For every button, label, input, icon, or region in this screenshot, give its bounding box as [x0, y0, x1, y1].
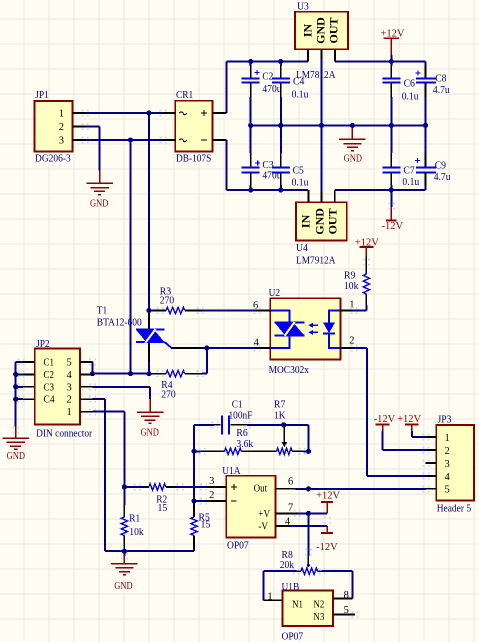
svg-text:3: 3	[59, 136, 64, 147]
pin JP2 1 (right)	[80, 411, 92, 413]
svg-text:JP3: JP3	[438, 413, 452, 425]
symbol - inside CR1	[201, 139, 207, 141]
wire +12V net down to R8 wiper	[307, 513, 309, 556]
svg-text:1: 1	[59, 109, 64, 120]
svg-text:4.7u: 4.7u	[433, 84, 450, 96]
wire JP2 pin1 down to R1/R2 node	[93, 411, 125, 413]
svg-text:MOC302x: MOC302x	[269, 364, 310, 376]
wire R2 to U1A pin3	[178, 486, 207, 488]
capacitor C6 0.1u	[390, 62, 392, 67]
svg-text:0.1u: 0.1u	[402, 176, 419, 188]
svg-text:10k: 10k	[129, 526, 144, 538]
junction C4 top on rail	[278, 59, 283, 64]
pin U1A.7	[276, 512, 298, 514]
pin U1B.5	[333, 614, 355, 616]
svg-text:1: 1	[67, 407, 72, 418]
svg-text:3: 3	[209, 476, 214, 487]
svg-text:DIN connector: DIN connector	[36, 428, 92, 440]
svg-text:C2: C2	[44, 370, 54, 381]
pin JP3.1	[426, 436, 436, 438]
wire junction to U2 pin4	[207, 347, 256, 349]
pin U3 OUT	[334, 49, 336, 61]
pin U1A.6	[276, 488, 296, 490]
junction C6 bottom / C7 top	[389, 123, 394, 128]
svg-text:1K: 1K	[274, 410, 286, 422]
ground symbol GND (mid rail)	[351, 125, 353, 128]
internal LED of U2	[329, 311, 341, 323]
svg-text:C8: C8	[435, 73, 447, 85]
wire junction down to R4	[206, 348, 208, 374]
svg-text:C2: C2	[262, 70, 273, 82]
resistor R9 10k vertical	[359, 246, 373, 248]
wire JP2 pin5 drop to row net	[92, 362, 94, 374]
svg-text:OUT: OUT	[325, 208, 339, 234]
connector JP1	[35, 101, 73, 152]
svg-text:-12V: -12V	[316, 542, 338, 553]
ground symbol GND (JP2 pin3)	[149, 399, 151, 412]
svg-text:470u: 470u	[262, 83, 282, 95]
junction JP2.4 pin / pin5 drop	[90, 371, 95, 376]
svg-text:4: 4	[254, 338, 260, 349]
capacitor C1 100nF	[194, 424, 214, 426]
svg-text:N3: N3	[313, 612, 324, 623]
polarity + of C2	[255, 72, 260, 74]
pin CR1 ac bottom	[163, 139, 175, 141]
junction U3/U4 GND pin on rail	[319, 123, 324, 128]
capacitor C9 4.7u	[425, 125, 427, 153]
svg-text:LM7812A: LM7812A	[296, 69, 336, 81]
resistor R4 270	[166, 371, 185, 377]
pin CR1 + output	[213, 112, 227, 114]
svg-text:OUT: OUT	[326, 17, 340, 43]
wire U2 pin1 to R9	[353, 310, 367, 312]
wire U3 OUT rail to +12V and C6 C8	[335, 61, 426, 63]
wire bottom rail right (U4 OUT to C7 C9)	[335, 189, 426, 191]
pin U3 GND	[321, 49, 323, 59]
power symbol +12V (U1A pin7)	[326, 502, 328, 513]
pin U1A.2	[206, 500, 226, 502]
pin U2.6	[256, 310, 271, 312]
wire JP1.2 to GND	[85, 126, 100, 128]
pin CR1 ac top	[163, 112, 175, 114]
op-amp U1A OP07	[226, 476, 275, 538]
svg-text:270: 270	[161, 389, 176, 401]
resistor R6 3.6k	[194, 450, 201, 452]
junction R7 to output vertical	[306, 449, 311, 454]
capacitor C4 0.1u	[280, 62, 282, 67]
wire pin7 to +12V	[297, 512, 327, 514]
svg-text:DG206-3: DG206-3	[35, 152, 71, 164]
capacitor C3 470u	[250, 125, 252, 153]
svg-text:2: 2	[67, 395, 72, 406]
svg-text:6: 6	[253, 300, 258, 311]
junction C3 bottom on rail	[248, 187, 253, 192]
svg-text:8: 8	[344, 590, 349, 601]
junction net AC2 end	[128, 371, 133, 376]
wire row net: JP2 to R4	[93, 373, 150, 375]
svg-text:3: 3	[445, 459, 450, 470]
svg-text:C1: C1	[44, 357, 54, 368]
junction gate / U2 pin4 / R4	[204, 345, 209, 350]
pin U1A.4	[276, 525, 291, 527]
svg-text:5: 5	[445, 485, 450, 496]
pin U2.2	[341, 347, 353, 349]
pin U4 OUT	[334, 190, 336, 202]
junction JP2 C3 on common	[13, 384, 18, 389]
junction C7 bottom / -12V	[389, 187, 394, 192]
svg-text:C7: C7	[403, 164, 415, 176]
wire JP1.3 to CR1 AC- node	[85, 139, 163, 141]
pin JP2 4 (right)	[80, 373, 92, 375]
svg-text:0.1u: 0.1u	[292, 88, 309, 100]
pin U4 GND	[321, 192, 323, 202]
svg-text:C3: C3	[44, 382, 54, 393]
svg-text:-12V: -12V	[374, 414, 396, 425]
svg-text:+12V: +12V	[355, 237, 379, 248]
svg-text:-V: -V	[258, 522, 268, 533]
power symbol -12V (below C7)	[390, 190, 392, 207]
resistor R8 20k (offset pot)	[264, 570, 297, 572]
symbol + input (U1A)	[231, 486, 237, 488]
junction R1 bottom / GND rail	[122, 549, 127, 554]
regulator U3 LM7812A	[295, 12, 348, 50]
svg-text:3: 3	[67, 382, 72, 393]
junction R3 tap on net AC1	[146, 308, 151, 313]
resistor R1 10k vertical	[123, 487, 125, 505]
svg-text:Out: Out	[254, 484, 268, 495]
hotspot markers	[12, 110, 429, 618]
svg-text:BTA12-600: BTA12-600	[97, 317, 142, 329]
svg-text:U1B: U1B	[282, 581, 300, 593]
svg-text:N1: N1	[292, 600, 303, 611]
optocoupler U2 MOC302x	[270, 298, 340, 359]
gate lead of T1	[165, 342, 177, 348]
svg-text:7: 7	[288, 502, 293, 513]
svg-text:2: 2	[59, 122, 64, 133]
svg-text:GND: GND	[141, 427, 159, 438]
svg-text:15: 15	[158, 502, 168, 514]
pin JP2 C1 (left)	[23, 361, 35, 363]
power symbol -12V (JP3)	[376, 424, 390, 426]
coupling arrows inside U2	[310, 324, 318, 326]
junction R7 wiper on C1 line	[281, 422, 286, 427]
svg-text:IN: IN	[300, 24, 314, 38]
svg-text:T1: T1	[97, 304, 107, 316]
internal triac of U2	[270, 311, 289, 323]
ground symbol GND (JP2 common)	[15, 427, 17, 438]
svg-text:C5: C5	[293, 164, 305, 176]
svg-text:C9: C9	[435, 159, 447, 171]
junction node pin2 / R5 / node A	[191, 498, 196, 503]
svg-text:5: 5	[344, 605, 349, 616]
pin CR1 - output	[213, 139, 227, 141]
wire pin4 to -12V	[290, 525, 327, 527]
junction R2 R1 JP2.1 node	[122, 484, 127, 489]
junction C2 top on rail	[248, 59, 253, 64]
pin JP2 C4 (left)	[23, 398, 35, 400]
pin JP2 C3 (left)	[23, 386, 35, 388]
svg-text:15: 15	[201, 519, 211, 531]
svg-text:4: 4	[67, 370, 73, 381]
svg-text:-12V: -12V	[382, 221, 404, 232]
polarity + of C9	[415, 159, 420, 161]
junction C4 bottom	[278, 123, 283, 128]
junction C2 bottom	[248, 123, 253, 128]
wire CR1- down to bottom rail	[226, 140, 228, 190]
svg-text:6: 6	[288, 476, 293, 487]
svg-text:IN: IN	[298, 214, 312, 228]
op-amp U1B OP07	[283, 590, 333, 626]
svg-text:4.7u: 4.7u	[434, 171, 451, 183]
svg-text:C6: C6	[404, 77, 416, 89]
svg-text:GND: GND	[7, 451, 25, 462]
wire U2 pin2 net to JP3 pin4	[367, 475, 426, 477]
junction GND symbol tap	[350, 123, 355, 128]
svg-text:2: 2	[445, 446, 450, 457]
connector JP2 DIN	[35, 349, 80, 425]
junction JP2 C2 on common	[13, 372, 18, 377]
pin JP3.3	[425, 462, 436, 464]
pin JP3.4	[426, 475, 436, 477]
resistor R3 270	[149, 310, 153, 312]
pin U1B.1	[264, 599, 283, 601]
polarity + of C8	[416, 72, 421, 74]
pin JP1.3	[73, 139, 86, 141]
wire vertical net AC2 down to JP2 row wire	[130, 140, 132, 374]
pin U2.1	[341, 310, 353, 312]
svg-text:470u: 470u	[262, 169, 282, 181]
pin JP3.2	[426, 449, 436, 451]
symbol + inside CR1	[201, 112, 207, 114]
svg-text:0.1u: 0.1u	[402, 90, 419, 102]
svg-text:GND: GND	[312, 208, 326, 235]
resistor R2 15	[124, 486, 141, 488]
svg-text:+V: +V	[258, 509, 270, 520]
pin JP1.1	[73, 112, 86, 114]
pin JP3.5	[426, 488, 436, 490]
wire R8 right to U1B pin8	[351, 571, 353, 598]
svg-text:JP2: JP2	[36, 338, 50, 350]
svg-text:100nF: 100nF	[229, 410, 253, 422]
junction JP2 C4 on common	[13, 397, 18, 402]
svg-text:C4: C4	[44, 395, 56, 406]
wire CR1+ up to top rail	[226, 62, 228, 114]
pin JP2 5 (right)	[80, 361, 92, 363]
svg-text:LM7912A: LM7912A	[296, 255, 336, 267]
pin U1B.8	[333, 598, 353, 600]
junction C5 bottom on rail	[278, 187, 283, 192]
svg-text:20k: 20k	[280, 559, 295, 571]
capacitor C2 470u	[250, 62, 252, 67]
svg-text:3.6k: 3.6k	[236, 438, 253, 450]
power symbol +12V (top)	[383, 37, 399, 39]
svg-text:OP07: OP07	[282, 631, 304, 642]
symbol ~ top inside CR1	[180, 112, 187, 115]
junction output node	[306, 486, 311, 491]
wire R8 left to U1B pin1	[263, 571, 265, 600]
ground symbol GND (JP1 pin2)	[99, 171, 101, 184]
junction node AC1 at (149,113)	[146, 110, 151, 115]
svg-text:1: 1	[267, 592, 272, 603]
wire T1 gate to junction	[172, 347, 203, 349]
svg-text:N2: N2	[313, 600, 324, 611]
symbol - input (U1A)	[231, 500, 237, 502]
wire -12V to JP3 pin2	[383, 449, 427, 451]
wire JP2 left common to GND	[16, 361, 23, 363]
pin U3 IN	[307, 49, 309, 61]
junction node A / R6	[191, 449, 196, 454]
capacitor C7 0.1u	[390, 125, 392, 153]
svg-text:+12V: +12V	[316, 491, 340, 502]
pin JP1.2	[73, 126, 86, 128]
svg-text:U3: U3	[297, 1, 309, 13]
svg-text:4: 4	[445, 472, 451, 483]
wire bottom rail to R5	[124, 550, 194, 552]
svg-text:1: 1	[445, 433, 450, 444]
bridge rectifier CR1	[175, 101, 212, 152]
triac T1 BTA12-600	[148, 313, 150, 330]
ground symbol GND (U1A)	[123, 551, 125, 556]
wire pin2 node to U1A pin2	[194, 500, 206, 502]
symbol ~ bottom inside CR1	[180, 139, 187, 142]
wire C1 line to output corner	[284, 424, 309, 426]
svg-text:2: 2	[209, 490, 214, 501]
wire JP2 pin2 down to bottom rail	[93, 398, 106, 400]
svg-text:OP07: OP07	[227, 540, 249, 552]
wire +12V to JP3 pin1	[412, 436, 426, 438]
wire mid GND rail	[251, 124, 426, 126]
capacitor C5 0.1u	[280, 125, 282, 153]
junction pin7 / R8 wiper net	[306, 511, 311, 516]
power symbol +12V (JP3)	[405, 424, 419, 426]
svg-text:R1: R1	[129, 513, 140, 525]
pin U2.4	[256, 347, 271, 349]
pin U4 IN	[308, 190, 310, 202]
svg-text:GND: GND	[114, 581, 132, 592]
junction node AC2 at (130.5,140)	[128, 137, 133, 142]
polarity + of C3	[255, 162, 260, 164]
pin JP2 2 (right)	[80, 398, 92, 400]
svg-text:5: 5	[67, 357, 72, 368]
junction net AC1 end	[146, 371, 151, 376]
resistor R5 15 vertical	[193, 536, 195, 552]
wire JP1.1 to CR1 AC+ node	[85, 112, 163, 114]
svg-text:Header 5: Header 5	[437, 502, 472, 514]
svg-text:+12V: +12V	[397, 414, 421, 425]
wire output node to JP3 pin5	[308, 488, 426, 490]
capacitor C8 4.7u	[425, 62, 427, 67]
power symbol -12V (U1A pin4)	[326, 526, 328, 533]
svg-text:GND: GND	[90, 199, 108, 210]
svg-text:10k: 10k	[344, 280, 359, 292]
svg-text:CR1: CR1	[176, 89, 193, 101]
svg-text:U1A: U1A	[222, 465, 240, 477]
wire U1A pin6 to output node	[296, 488, 309, 490]
wire U2 pin2 down to JP3 pin4	[353, 347, 367, 349]
svg-text:U4: U4	[296, 242, 308, 254]
junction +12V / C6 top	[389, 59, 394, 64]
junction C8 bottom / C9 top	[423, 123, 428, 128]
svg-text:JP1: JP1	[35, 89, 49, 101]
svg-text:U2: U2	[269, 287, 280, 299]
wire R3 to U2 pin6	[202, 310, 256, 312]
svg-text:GND: GND	[344, 153, 362, 164]
connector JP3 Header 5	[436, 425, 474, 500]
svg-text:+12V: +12V	[381, 28, 405, 39]
svg-text:DB-107S: DB-107S	[176, 152, 211, 164]
potentiometer R7 1K	[277, 448, 293, 454]
wire node A vertical (C1 left)	[193, 425, 195, 501]
pin JP2 C2 (left)	[23, 373, 35, 375]
svg-text:0.1u: 0.1u	[292, 177, 309, 189]
svg-text:GND: GND	[313, 17, 327, 44]
regulator U4 LM7912A	[296, 202, 347, 240]
wire JP2 pin3 to GND	[93, 386, 151, 388]
svg-text:270: 270	[160, 295, 175, 307]
pin JP2 3 (right)	[80, 386, 92, 388]
wire vertical net AC1 from JP1.1 down to triac T1	[148, 113, 150, 374]
pin U1A.3	[206, 486, 226, 488]
